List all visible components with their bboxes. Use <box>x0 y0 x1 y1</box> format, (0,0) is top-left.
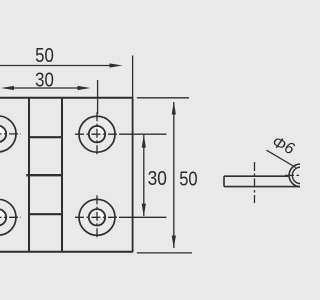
hole bottom-left inner circle <box>0 209 6 225</box>
dim 50 vertical bottom arrow <box>172 236 176 249</box>
hole top-left crosshair <box>0 112 21 156</box>
leader line to knuckle <box>267 150 296 167</box>
knuckle joint line 2 (middle, with left overhang) <box>26 174 62 176</box>
extension line above plate right edge <box>132 56 134 98</box>
hole bottom-left outer circle <box>0 199 16 235</box>
dim 30 horizontal left arrow <box>1 86 14 90</box>
knuckle left line <box>28 98 30 252</box>
hole top-left inner circle <box>0 126 6 142</box>
side view knuckle horizontal centerline <box>285 174 300 176</box>
extension line hole-center top right <box>119 133 166 135</box>
hole top-right inner circle <box>89 126 105 142</box>
hole bottom-right outer circle <box>79 199 115 235</box>
extension line for 30 horizontal (right) <box>97 80 99 114</box>
svg-text:30: 30 <box>148 168 167 190</box>
hole top-right crosshair <box>75 112 119 156</box>
extension line hole-center bottom right <box>119 216 166 218</box>
dim 30 vertical line <box>143 135 145 216</box>
dim 50 horizontal line <box>0 65 112 67</box>
hole top-right white quadrant <box>97 126 105 134</box>
hole bottom-left crosshair <box>0 195 21 239</box>
dim 50 vertical top arrow <box>172 102 176 115</box>
side view bar top edge <box>224 175 290 177</box>
dim 30 horizontal right arrow <box>78 86 91 90</box>
hole bottom-right white quadrant <box>97 209 105 217</box>
svg-text:50: 50 <box>179 168 197 190</box>
dim 50 vertical line <box>173 102 175 248</box>
knuckle joint line 1 <box>29 136 62 138</box>
plate bottom edge <box>0 251 133 253</box>
hole bottom-left white quadrant <box>0 209 6 217</box>
side view bar left edge <box>223 176 225 186</box>
hole bottom-right inner circle <box>89 209 105 225</box>
svg-text:50: 50 <box>35 45 54 67</box>
side view vertical centerline <box>254 162 256 203</box>
knuckle joint line 3 <box>29 213 62 215</box>
plate right edge <box>132 97 134 252</box>
knuckle right line <box>61 98 63 252</box>
dim 30 vertical top arrow <box>142 135 146 148</box>
dim 30 horizontal line <box>12 87 79 89</box>
hole bottom-right crosshair <box>75 195 119 239</box>
hole top-right outer circle <box>79 116 115 152</box>
hole top-left outer circle <box>0 116 16 152</box>
plate top edge <box>0 97 133 99</box>
extension line top right (plate top) <box>137 97 189 99</box>
hole top-left white quadrant <box>0 126 6 134</box>
extension line bottom right (plate bottom) <box>137 252 192 254</box>
side view bar bottom edge <box>224 186 300 188</box>
dim 50 horizontal right arrow <box>110 63 123 67</box>
side view knuckle outer circle <box>289 164 312 187</box>
side view knuckle inner circle <box>292 167 308 183</box>
svg-text:30: 30 <box>35 70 54 92</box>
dim 30 vertical bottom arrow <box>142 204 146 217</box>
